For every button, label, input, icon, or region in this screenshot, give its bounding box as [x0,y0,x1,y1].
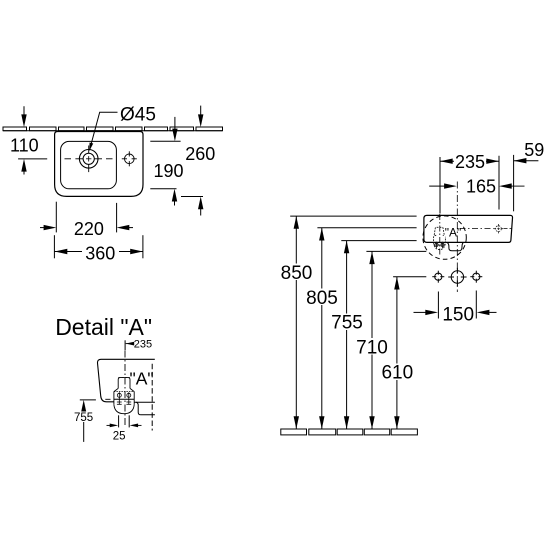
svg-text:Detail "A": Detail "A" [55,314,152,340]
fitting centreline [439,214,441,257]
drain hole Ø45 [65,146,113,173]
washbasin outer rim (plan) [55,132,143,197]
svg-text:59: 59 [524,140,544,160]
dim 165 [429,177,524,197]
label "A" (front view) [445,225,462,239]
svg-text:235: 235 [455,152,485,172]
dim 850 [280,216,313,429]
svg-text:25: 25 [113,430,126,442]
basin body (front) [424,215,513,242]
svg-text:360: 360 [85,244,115,264]
vertical centreline through large hole [456,182,458,293]
vertical centreline of fitting [124,351,126,426]
svg-text:"A": "A" [445,225,462,239]
dim 220 [40,202,133,239]
label Ø45 with leader [87,105,156,152]
detail "A" indicator circle (dashed) [423,216,466,259]
wall (tiled band, plan view) [3,127,223,131]
extension line underside 755 [341,240,416,242]
floor (tiled band) [281,429,418,435]
extension line fixing holes 610 [393,276,426,278]
fixing fitting (section) [114,378,134,414]
overflow/fixing hole right (dashed cross circle) [494,224,503,233]
extension line x=513.6 (basin right edge) [513,155,515,211]
dim 755 (detail) [73,400,96,442]
svg-text:150: 150 [442,304,474,325]
step under platform [136,402,155,415]
svg-text:260: 260 [185,144,215,164]
svg-text:165: 165 [466,177,496,197]
extension line x=440 (tap centre, from 235 dim) [439,157,441,214]
svg-text:"A": "A" [130,369,154,389]
extension line tap height 805 [317,227,416,229]
svg-text:850: 850 [281,263,313,284]
dim 710 [356,251,389,429]
svg-text:235: 235 [134,338,152,350]
extension line x=499 (hole) [498,156,500,210]
dim 25 (detail) [107,415,142,442]
inner bowl (plan) [61,141,117,188]
svg-text:755: 755 [331,313,363,334]
dim 190 (inner bowl depth) [150,117,183,206]
dim 150 [414,291,497,326]
extension line rim height 850 [290,215,416,217]
dim 110 (wall to drain centre) [10,106,47,174]
section outline (deck) [97,359,154,402]
dim 260 (wall to front edge) [181,106,215,216]
extension line siphon bottom 710 [366,250,426,252]
tap fitting symbol (front, dashed thin) [434,227,446,249]
siphon pocket under basin [446,242,463,250]
wall fixing holes [432,268,482,286]
horizontal centreline through tap holes [460,228,494,230]
dim 610 [381,277,414,429]
dim 755 [331,241,364,429]
bolts inside [117,392,131,404]
svg-text:710: 710 [356,337,388,358]
dim 59 [514,140,545,163]
dashed edge line right [151,364,153,431]
svg-text:110: 110 [10,135,39,155]
ceramic platform lines through fitting [114,398,134,400]
tap hole (plan) [122,151,137,166]
dim 805 [306,228,339,429]
dim 235 (front top) [440,152,499,172]
svg-text:Ø45: Ø45 [120,105,156,126]
svg-text:190: 190 [153,161,183,181]
svg-text:610: 610 [381,362,413,383]
svg-text:220: 220 [74,219,104,239]
svg-text:755: 755 [74,412,93,424]
svg-text:805: 805 [306,288,338,309]
mini dim 235 [125,338,152,350]
dim 360 [54,235,142,264]
centreline dash left of fitting [105,398,110,400]
